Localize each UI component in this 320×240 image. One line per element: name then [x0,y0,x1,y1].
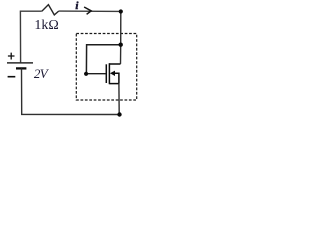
dashed box (device outline) [76,34,136,101]
battery V1 short plate (-) [16,67,26,69]
node dot drain/gate junction [119,43,123,47]
current arrow i (arrowhead on top wire) [84,7,91,14]
transistor M1: body arrow (points to channel) [110,71,115,76]
transistor M1: source stub [109,83,119,85]
node dot top-right [119,9,123,13]
svg-text:1kΩ: 1kΩ [34,18,58,33]
wire: gate lead [86,73,105,75]
wire: resistor to top-right node [59,10,121,12]
node dot gate corner [84,72,88,76]
battery V1 long plate (+) [7,62,33,64]
wire: gate feedback, node to corner, down to gate dot [86,45,120,74]
wire: right rail from top node down to drain corner [120,11,122,64]
svg-text:i: i [75,0,79,12]
plus sign [8,53,15,60]
wire top-left: left rail up + top wire to resistor [20,11,41,63]
svg-text:2V: 2V [34,66,50,81]
resistor R 1kOhm zigzag [42,5,59,15]
wire: source down to bottom node [118,84,120,115]
transistor M1: drain stub [109,63,120,65]
transistor M1: channel bar [108,63,110,84]
minus sign [8,76,16,78]
node dot bottom-right [117,112,121,116]
wire: battery minus down + bottom wire [22,68,120,114]
transistor M1: gate bar [105,64,107,83]
